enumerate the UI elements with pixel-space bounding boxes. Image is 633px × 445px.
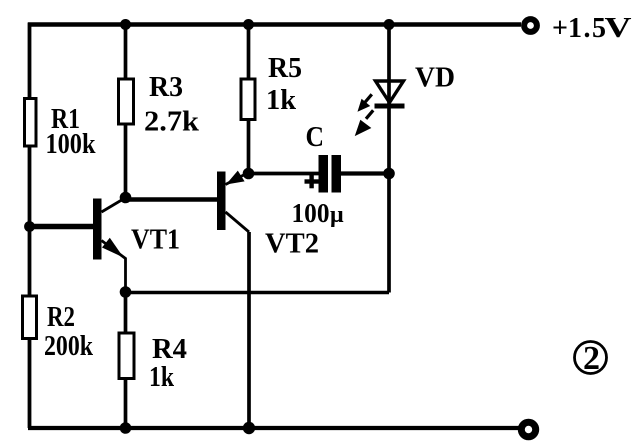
svg-text:μ: μ: [330, 202, 344, 228]
svg-text:R3: R3: [149, 71, 183, 103]
svg-text:1k: 1k: [149, 361, 175, 393]
wire feedback to VT1 emitter: [126, 291, 390, 295]
svg-text:VT2: VT2: [265, 228, 319, 260]
wire VT1 collector to VT2 base: [126, 197, 218, 202]
LED VD: [375, 81, 405, 106]
node top of R5: [243, 19, 254, 30]
terminal +1.5V: [524, 19, 537, 32]
svg-text:R2: R2: [47, 301, 75, 333]
figure number 2: [575, 340, 607, 377]
wire R3 branch: [124, 25, 128, 198]
node VT1 emitter junction: [120, 286, 132, 298]
wire base of VT1: [30, 224, 94, 230]
node top of LED branch: [384, 19, 395, 30]
LED light emission arrows: [356, 94, 374, 135]
wire R5 branch: [247, 25, 251, 174]
svg-text:VT1: VT1: [131, 224, 180, 256]
node VT2 emitter junction: [243, 168, 255, 180]
svg-text:VD: VD: [415, 63, 455, 94]
node R4 bottom: [120, 422, 132, 434]
capacitor C: [319, 155, 342, 193]
terminal bottom: [521, 422, 535, 436]
transistor VT2: [217, 171, 249, 232]
wire LED branch lower: [387, 104, 391, 293]
wire capacitor left lead: [249, 172, 319, 176]
node capacitor LED junction: [383, 168, 395, 180]
wire top supply rail: [28, 22, 521, 26]
svg-text:2: 2: [583, 340, 600, 377]
resistor R2: [23, 296, 37, 339]
resistor R3: [119, 79, 134, 124]
svg-text:R5: R5: [268, 52, 302, 84]
resistor R4: [119, 333, 134, 379]
svg-text:C: C: [306, 121, 325, 153]
svg-text:2.7k: 2.7k: [144, 107, 199, 138]
wire R4 branch: [124, 292, 128, 428]
node VT2 collector bottom: [243, 422, 255, 434]
resistor R5: [241, 79, 255, 120]
wire VT2 collector to bottom rail: [247, 232, 251, 428]
wire bottom rail: [28, 426, 519, 430]
wire LED branch upper: [387, 25, 391, 107]
svg-text:+1.5V: +1.5V: [552, 13, 632, 44]
label + polarity: [305, 175, 320, 189]
wire capacitor right lead: [341, 171, 389, 175]
node R3 bottom / VT1 collector junction: [120, 192, 132, 204]
node top of R3: [120, 19, 131, 30]
svg-text:200k: 200k: [44, 330, 94, 362]
svg-text:1k: 1k: [266, 84, 297, 116]
svg-text:100: 100: [292, 198, 330, 228]
wire left rail: [28, 23, 32, 429]
transistor VT1: [93, 198, 126, 292]
resistor R1: [25, 99, 37, 147]
node base tap on left rail: [24, 221, 35, 232]
svg-text:100k: 100k: [46, 128, 97, 160]
